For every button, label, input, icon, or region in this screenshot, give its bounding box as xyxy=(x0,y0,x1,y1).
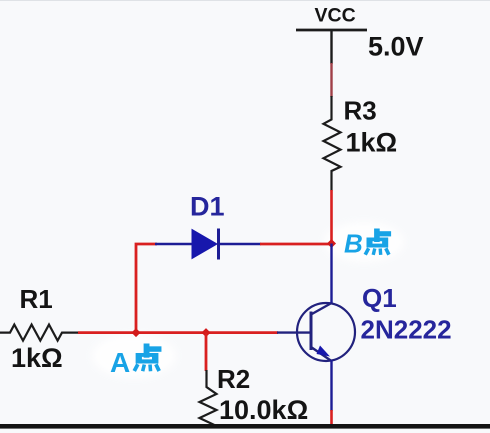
label B点 xyxy=(344,229,391,259)
resistor R1 xyxy=(0,325,79,341)
halo behind A点 label xyxy=(92,334,176,378)
svg-text:B: B xyxy=(344,229,363,259)
svg-text:5.0V: 5.0V xyxy=(368,32,424,62)
svg-text:R1: R1 xyxy=(20,284,53,314)
wire diode cathode to node B (red) xyxy=(260,243,332,246)
wire VCC rail down (black segment) xyxy=(330,30,332,64)
node R2 junction xyxy=(201,328,210,337)
value label 1kΩ (R1) xyxy=(11,343,63,373)
svg-text:10.0kΩ: 10.0kΩ xyxy=(219,395,308,425)
svg-text:2N2222: 2N2222 xyxy=(361,315,452,345)
wire emitter to ground rail (red) xyxy=(330,410,333,425)
wire emitter down (navy) xyxy=(330,360,332,411)
node B junction xyxy=(327,239,336,248)
ground rail xyxy=(0,424,490,429)
wire junction to R2 (red) xyxy=(205,333,208,371)
value label 5.0V xyxy=(368,32,424,62)
label D1 xyxy=(190,192,225,222)
svg-text:R3: R3 xyxy=(344,96,377,126)
label R1 xyxy=(20,284,53,314)
top edge faint line xyxy=(0,0,490,1)
wire collector to node B (navy) xyxy=(330,244,332,304)
svg-text:Q1: Q1 xyxy=(362,283,397,313)
svg-text:R2: R2 xyxy=(217,364,250,394)
resistor R3 xyxy=(324,96,341,191)
label R2 xyxy=(217,364,250,394)
wire node A up-leg (red) xyxy=(136,244,157,334)
svg-text:D1: D1 xyxy=(190,192,225,222)
label VCC xyxy=(315,5,356,27)
wire R3 to node B (red) xyxy=(330,190,333,244)
halo behind B点 label xyxy=(324,222,404,262)
wire main node A horizontal (red) xyxy=(78,331,278,334)
diode D1 xyxy=(155,229,261,260)
value label 1kΩ (R3) xyxy=(346,128,398,158)
label R3 xyxy=(344,96,377,126)
resistor R2 xyxy=(200,370,217,426)
wire red segment above R3 xyxy=(330,63,332,97)
svg-text:1kΩ: 1kΩ xyxy=(11,343,63,373)
transistor Q1 xyxy=(277,303,355,361)
svg-text:1kΩ: 1kΩ xyxy=(346,128,398,158)
node A junction xyxy=(131,328,140,337)
svg-text:VCC: VCC xyxy=(315,5,356,27)
label A点 xyxy=(110,344,161,378)
power rail VCC xyxy=(296,29,367,32)
label 2N2222 xyxy=(361,315,452,345)
label Q1 xyxy=(362,283,397,313)
value label 10.0kΩ (R2) xyxy=(219,395,308,425)
svg-text:A: A xyxy=(110,347,130,378)
